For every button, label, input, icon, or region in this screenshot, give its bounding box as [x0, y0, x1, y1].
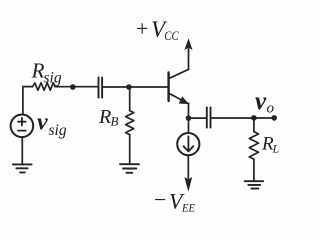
node2 vertical down to R_B [129, 87, 131, 111]
wire C2 to vo terminal [211, 117, 274, 119]
svg-text:v: v [37, 110, 48, 136]
svg-text:CC: CC [164, 28, 179, 43]
VEE arrow head [185, 178, 192, 191]
transistor Q1 base bar [167, 73, 169, 102]
node A dot (Rsig/C1) [70, 84, 76, 90]
node E dot (emitter) [186, 115, 192, 121]
wire R_B to ground [129, 135, 131, 164]
svg-text:sig: sig [44, 70, 62, 87]
svg-text:EE: EE [181, 201, 195, 215]
collector vertical to VCC arrow [188, 47, 190, 70]
resistor R_B zigzag [126, 111, 134, 135]
vsig + terminal mark [18, 118, 26, 126]
transistor Q1 emitter diagonal [169, 94, 188, 104]
resistor Rsig zigzag [33, 83, 55, 90]
wire resistor to C1 [55, 86, 98, 88]
svg-text:B: B [111, 114, 119, 129]
node dot (R_L junction) [251, 115, 257, 121]
transistor Q1 collector diagonal [169, 69, 188, 78]
svg-text:L: L [272, 142, 280, 156]
svg-text:+: + [136, 16, 148, 41]
ground (R_L) [245, 181, 263, 188]
svg-text:R: R [98, 106, 111, 128]
wire RL junction down [253, 118, 255, 132]
wire current source to VEE arrow [187, 155, 189, 178]
node dot (vo terminal) [271, 115, 277, 121]
current source I circle [177, 133, 199, 155]
capacitor C2 plates [207, 107, 211, 127]
capacitor C1 plates [99, 77, 103, 97]
svg-text:sig: sig [49, 122, 67, 139]
current source inner arrow [184, 136, 194, 151]
ground (vsig) [13, 164, 32, 172]
output wire emitter node to C2 [189, 117, 207, 119]
vsig - terminal mark [18, 130, 26, 132]
emitter vertical down to node [188, 103, 190, 133]
vsig source circle [11, 115, 34, 138]
wire left vertical from source to corner [23, 87, 33, 115]
svg-text:−: − [154, 187, 166, 212]
svg-text:v: v [255, 88, 267, 115]
svg-text:o: o [267, 101, 275, 117]
wire vsig to ground [21, 137, 23, 164]
ground (R_B) [120, 164, 139, 173]
svg-text:R: R [31, 59, 45, 83]
wire C1 to base [103, 86, 168, 88]
resistor R_L zigzag [249, 132, 258, 160]
VCC arrow head [185, 39, 192, 49]
transistor Q1 emitter arrow head [180, 98, 187, 104]
wire R_L to ground [253, 159, 255, 181]
node B dot (base) [126, 84, 132, 90]
